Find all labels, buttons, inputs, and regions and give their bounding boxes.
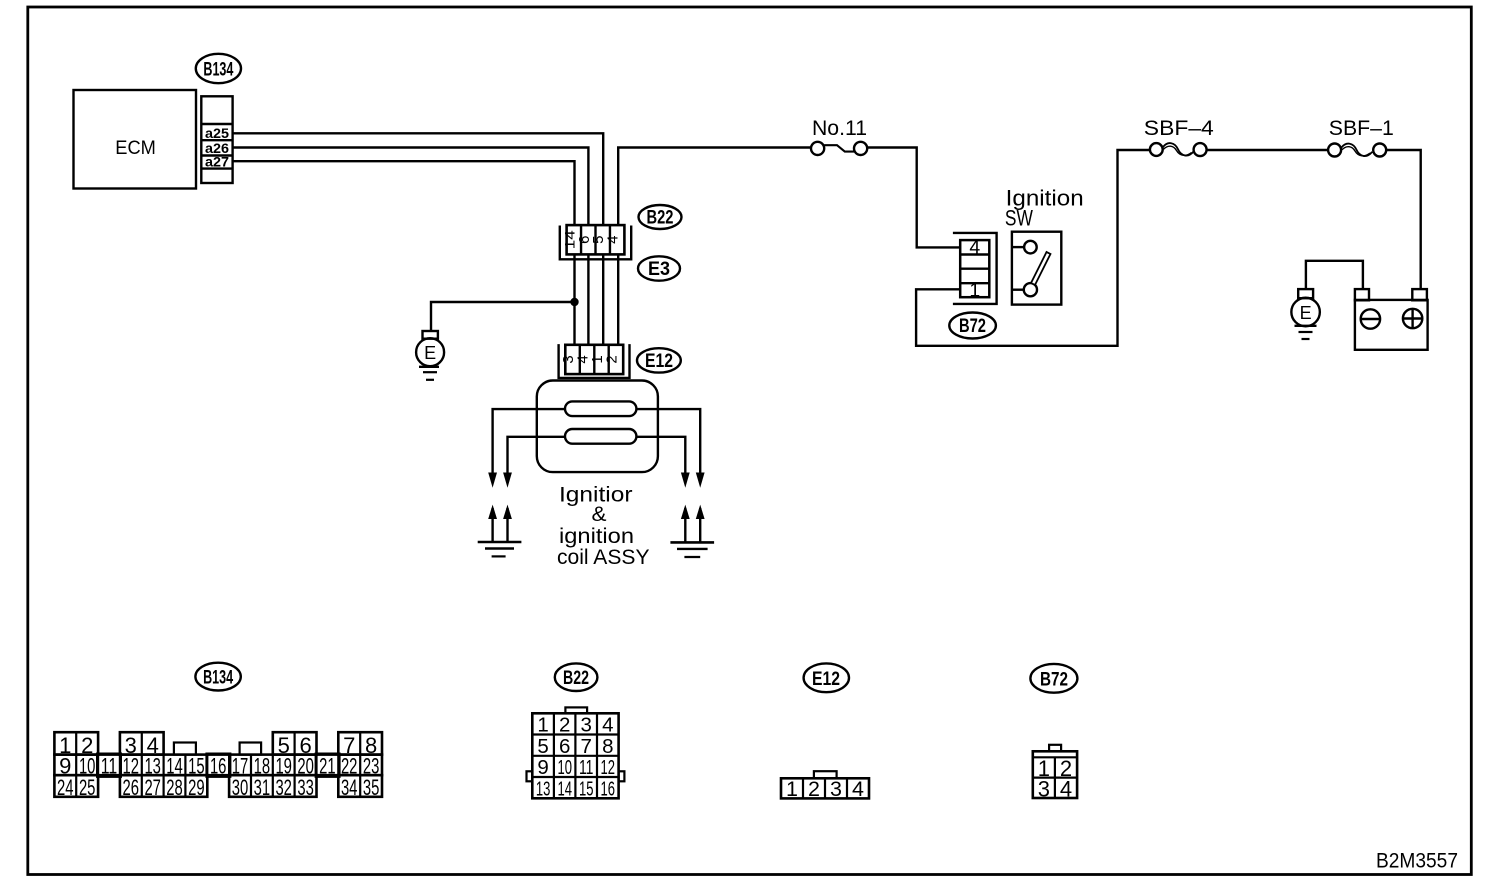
svg-text:SBF–4: SBF–4: [1144, 116, 1214, 140]
svg-text:13: 13: [536, 777, 551, 800]
svg-text:12: 12: [601, 756, 616, 779]
svg-text:&: &: [592, 503, 607, 526]
svg-text:E: E: [424, 343, 436, 363]
svg-text:16: 16: [601, 777, 616, 800]
svg-text:E12: E12: [812, 669, 840, 690]
svg-text:ECM: ECM: [115, 137, 156, 159]
svg-text:SBF–1: SBF–1: [1329, 116, 1394, 140]
svg-text:30: 30: [232, 775, 249, 800]
svg-text:34: 34: [341, 775, 358, 800]
svg-text:10: 10: [557, 756, 572, 779]
svg-text:16: 16: [210, 754, 227, 779]
svg-text:1: 1: [786, 777, 798, 801]
svg-text:E: E: [1300, 303, 1312, 323]
svg-text:2: 2: [559, 714, 570, 737]
svg-text:11: 11: [579, 756, 594, 779]
svg-text:3: 3: [580, 714, 591, 737]
svg-text:1: 1: [537, 714, 548, 737]
svg-text:33: 33: [297, 775, 314, 800]
svg-text:1: 1: [969, 279, 980, 301]
svg-text:4: 4: [852, 777, 864, 801]
svg-text:2: 2: [603, 355, 620, 363]
svg-text:a27: a27: [205, 155, 229, 170]
svg-text:21: 21: [319, 754, 336, 779]
svg-text:ignition: ignition: [559, 525, 634, 548]
svg-text:7: 7: [580, 735, 591, 758]
svg-text:B22: B22: [647, 208, 674, 229]
svg-text:32: 32: [275, 775, 292, 800]
svg-text:29: 29: [188, 775, 205, 800]
svg-text:27: 27: [144, 775, 161, 800]
svg-text:24: 24: [57, 775, 74, 800]
svg-text:15: 15: [579, 777, 594, 800]
svg-text:a25: a25: [205, 126, 230, 141]
svg-text:4: 4: [969, 236, 980, 258]
svg-text:coil ASSY: coil ASSY: [557, 546, 650, 569]
svg-text:3: 3: [830, 777, 842, 801]
svg-text:5: 5: [537, 735, 548, 758]
svg-text:B134: B134: [203, 60, 233, 81]
svg-text:B72: B72: [1040, 670, 1068, 691]
svg-text:E3: E3: [648, 259, 670, 280]
svg-text:3: 3: [1038, 776, 1050, 801]
svg-text:8: 8: [602, 735, 613, 758]
svg-text:4: 4: [605, 236, 622, 244]
svg-text:E12: E12: [645, 351, 673, 372]
svg-text:B72: B72: [959, 316, 986, 337]
svg-text:28: 28: [166, 775, 183, 800]
svg-text:No.11: No.11: [812, 116, 867, 140]
svg-text:35: 35: [363, 775, 380, 800]
svg-text:14: 14: [557, 777, 572, 800]
svg-text:SW: SW: [1005, 206, 1033, 231]
svg-text:B22: B22: [563, 668, 589, 689]
svg-text:6: 6: [559, 735, 570, 758]
svg-text:4: 4: [602, 714, 613, 737]
svg-text:31: 31: [254, 775, 271, 800]
svg-text:B2M3557: B2M3557: [1376, 849, 1458, 873]
svg-text:2: 2: [808, 777, 820, 801]
svg-text:B134: B134: [203, 668, 233, 689]
svg-text:4: 4: [1060, 776, 1072, 801]
svg-text:11: 11: [101, 754, 118, 779]
svg-text:9: 9: [537, 756, 548, 779]
svg-text:26: 26: [123, 775, 140, 800]
svg-text:25: 25: [79, 775, 96, 800]
